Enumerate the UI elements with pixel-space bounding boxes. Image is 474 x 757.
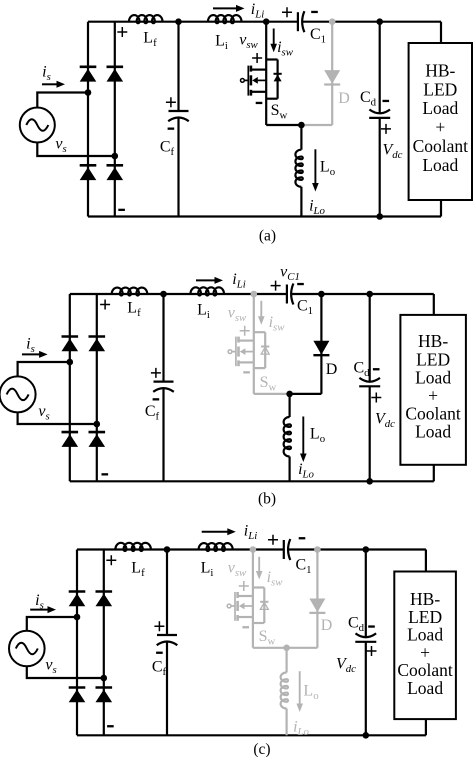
- current arrow is: [30, 609, 48, 611]
- label - (Cf): [156, 652, 163, 654]
- label - (Cd): [383, 100, 390, 102]
- wire (load bottom): [425, 719, 427, 735]
- current arrow isw: [273, 29, 275, 45]
- wire (switch branch drain): [253, 294, 255, 394]
- inductor Lo: [281, 673, 288, 709]
- junction (D tap): [314, 546, 321, 553]
- junction (switch/D/Lo node): [298, 122, 305, 129]
- svg-text:LED: LED: [423, 79, 457, 99]
- label + (vsw): [240, 326, 250, 336]
- label + (Cd): [381, 124, 391, 134]
- label + (C1): [271, 281, 281, 291]
- wire (bridge right leg): [103, 550, 105, 736]
- svg-text:D: D: [326, 361, 338, 378]
- junction (D tap): [329, 18, 336, 25]
- wire (D branch): [316, 550, 318, 648]
- current arrow iLo: [302, 417, 304, 455]
- figure (c): [9, 523, 456, 757]
- wire (Lo upper): [300, 125, 302, 150]
- capacitor C1: [297, 12, 299, 31]
- wire (bridge left leg): [69, 294, 71, 481]
- label - (C1): [297, 283, 304, 285]
- diode D: [324, 70, 340, 84]
- wire (bridge left leg): [76, 550, 78, 736]
- junction (D tap): [318, 291, 325, 298]
- load box (HB-LED Load + Coolant Load): [409, 43, 472, 200]
- svg-text:Coolant: Coolant: [405, 404, 461, 424]
- current arrow iLo: [299, 671, 301, 704]
- current arrow is: [22, 353, 40, 355]
- svg-text:(b): (b): [258, 491, 276, 508]
- inductor Lf: [129, 15, 162, 23]
- junction (switch/D/Lo node): [286, 391, 293, 398]
- capacitor Cf: [157, 634, 177, 636]
- diode (bridge, lower-left): [69, 686, 86, 689]
- figure (b): [0, 264, 466, 508]
- inductor Lo: [284, 417, 291, 457]
- junction (Cd bottom): [366, 478, 373, 485]
- wire (Lo lower): [286, 709, 288, 736]
- diode D: [313, 341, 329, 355]
- label - (Cf): [153, 398, 160, 400]
- current arrow iLo: [314, 149, 316, 184]
- svg-text:HB-: HB-: [425, 61, 455, 81]
- diode D: [309, 599, 325, 613]
- figure (a): [20, 1, 472, 244]
- capacitor Cf: [169, 110, 189, 112]
- label + (vsw): [252, 53, 262, 63]
- label + (C1): [282, 7, 292, 17]
- current arrow iLi: [202, 531, 229, 533]
- inductor Lf: [115, 543, 150, 551]
- svg-text:+: +: [428, 386, 438, 406]
- label - (C1): [299, 537, 306, 539]
- wire (D branch): [331, 22, 333, 125]
- junction (switch tap): [250, 546, 257, 553]
- wire (Lo upper): [286, 648, 288, 673]
- wire (source to bridge bottom): [27, 666, 104, 678]
- wire (Lo lower): [300, 187, 302, 217]
- wire (load bottom): [433, 465, 435, 482]
- label - (Cd): [373, 368, 380, 370]
- diode (bridge, upper-left): [62, 335, 79, 338]
- wire (D to node): [301, 124, 332, 126]
- junction (Cd top): [366, 291, 373, 298]
- junction (source -): [101, 675, 108, 682]
- junction (Cd top): [363, 546, 370, 553]
- wire (Cf branch upper): [166, 550, 168, 636]
- load box (HB-LED Load + Coolant Load): [400, 315, 466, 465]
- junction (Cd bottom): [363, 732, 370, 739]
- junction (source +): [67, 359, 74, 366]
- inductor Li: [199, 543, 233, 551]
- svg-text:Load: Load: [422, 155, 458, 175]
- junction (source +): [74, 614, 81, 621]
- wire (top rail left of C1): [70, 293, 287, 295]
- wire (top rail left of C1): [77, 548, 284, 550]
- inductor Li: [190, 287, 223, 295]
- inductor Li: [208, 15, 241, 23]
- wire (source to bridge bottom): [37, 143, 115, 157]
- label - (bridge output): [107, 725, 114, 727]
- wire (switch branch drain): [265, 22, 267, 125]
- capacitor Cf: [154, 381, 174, 383]
- wire (Cd upper): [379, 22, 381, 114]
- svg-text:LED: LED: [416, 349, 450, 369]
- junction (Cd bottom): [376, 213, 383, 220]
- svg-text:Load: Load: [407, 678, 443, 698]
- label + (bridge output): [106, 555, 116, 565]
- junction (switch/D/Lo node): [283, 645, 290, 652]
- capacitor Cd: [369, 110, 390, 114]
- wire (Cd upper): [369, 294, 371, 382]
- label - (C1): [311, 11, 318, 13]
- ac source vs: [9, 631, 45, 667]
- label + (bridge output): [100, 300, 110, 310]
- svg-text:Coolant: Coolant: [413, 136, 469, 156]
- svg-text:HB-: HB-: [418, 331, 448, 351]
- label + (Cf): [151, 368, 161, 378]
- svg-text:+: +: [435, 117, 445, 137]
- label + (Cf): [166, 97, 176, 107]
- wire (bridge right leg): [96, 294, 98, 481]
- svg-text:(a): (a): [259, 227, 276, 244]
- wire (load top): [425, 550, 427, 572]
- diode (bridge, upper-right): [89, 335, 106, 338]
- wire (top rail right of C1): [288, 548, 426, 550]
- wire (bridge left leg): [87, 22, 89, 217]
- transistor Sw: [241, 60, 282, 99]
- wire (top rail left of C1): [88, 21, 298, 23]
- capacitor C1: [283, 540, 285, 559]
- diode (bridge, lower-right): [89, 431, 106, 434]
- label + (Cf): [154, 621, 164, 631]
- label - (vsw): [256, 102, 263, 104]
- label - (bridge output): [118, 209, 125, 211]
- wire (load bottom): [440, 200, 442, 217]
- ac source vs: [20, 108, 55, 143]
- wire (Cf branch lower): [166, 642, 168, 736]
- junction (source -): [94, 421, 101, 428]
- junction (source -): [112, 153, 119, 160]
- junction (Cf tap): [164, 546, 171, 553]
- svg-text:D: D: [338, 90, 350, 107]
- wire (source to bridge top): [37, 93, 88, 108]
- capacitor C1: [286, 285, 288, 304]
- current arrow isw: [260, 301, 262, 318]
- current arrow iLi: [196, 279, 216, 281]
- current arrow is: [42, 83, 58, 85]
- wire (Lo lower): [289, 457, 291, 482]
- label + (C1): [268, 535, 278, 545]
- diode (bridge, lower-right): [96, 686, 113, 689]
- junction (Cf tap): [175, 18, 182, 25]
- svg-text:Load: Load: [422, 98, 458, 118]
- svg-text:Load: Load: [415, 422, 451, 442]
- diode (bridge, lower-left): [62, 431, 79, 434]
- inductor Lf: [112, 288, 148, 296]
- label - (Cf): [168, 128, 175, 130]
- diode (bridge, lower-left): [80, 164, 97, 167]
- svg-text:(c): (c): [253, 741, 270, 757]
- svg-text:D: D: [321, 617, 333, 634]
- wire (top rail right of C1): [302, 21, 441, 23]
- wire (Cf branch upper): [177, 22, 179, 111]
- capacitor Cd: [359, 378, 380, 382]
- wire (switch source to node): [254, 393, 290, 395]
- wire (Cd lower): [379, 118, 381, 217]
- junction (switch tap): [263, 18, 270, 25]
- wire (D to node): [290, 393, 322, 395]
- label + (vsw): [239, 581, 249, 591]
- transistor Sw: [228, 332, 269, 368]
- label + (Cd): [371, 393, 381, 403]
- diode (bridge, upper-right): [96, 590, 113, 593]
- label + (bridge output): [117, 27, 127, 37]
- svg-text:Load: Load: [415, 367, 451, 387]
- capacitor Cd: [356, 633, 377, 637]
- wire (source to bridge top): [27, 617, 77, 631]
- wire (source to bridge bottom): [18, 412, 97, 424]
- label - (vsw): [242, 626, 249, 628]
- wire (bottom rail): [77, 734, 426, 736]
- load box (HB-LED Load + Coolant Load): [394, 572, 456, 720]
- wire (D to node): [287, 647, 318, 649]
- wire (switch source to node): [253, 647, 287, 649]
- diode (bridge, lower-right): [107, 164, 124, 167]
- wire (Cd lower): [365, 642, 367, 736]
- wire (switch source to node): [266, 124, 301, 126]
- wire (bottom rail): [70, 480, 434, 482]
- junction (Cf tap): [160, 291, 167, 298]
- transistor Sw: [227, 588, 268, 624]
- wire (switch branch drain): [252, 550, 254, 648]
- wire (bridge right leg): [114, 22, 116, 217]
- label - (Cd): [368, 625, 375, 627]
- wire (load top): [440, 22, 442, 43]
- junction (source +): [85, 89, 92, 96]
- junction (Cd top): [376, 18, 383, 25]
- wire (Cd lower): [369, 386, 371, 481]
- wire (Lo upper): [289, 394, 291, 417]
- wire (D branch): [320, 294, 322, 394]
- ac source vs: [0, 376, 36, 412]
- inductor Lo: [295, 150, 302, 187]
- wire (bottom rail): [88, 215, 441, 217]
- wire (Cf branch lower): [177, 118, 179, 217]
- diode (bridge, upper-left): [80, 66, 97, 69]
- label - (vsw): [243, 371, 250, 373]
- current arrow iLi: [213, 7, 237, 9]
- wire (Cd upper): [365, 550, 367, 638]
- wire (top rail right of C1): [291, 293, 434, 295]
- label + (Cd): [367, 646, 377, 656]
- wire (source to bridge top): [18, 362, 70, 376]
- junction (switch tap): [251, 291, 258, 298]
- label - (bridge output): [102, 473, 109, 475]
- wire (load top): [433, 294, 435, 315]
- current arrow isw: [258, 557, 260, 572]
- wire (Cf branch upper): [162, 294, 164, 382]
- diode (bridge, upper-left): [69, 590, 86, 593]
- wire (Cf branch lower): [162, 388, 164, 481]
- diode (bridge, upper-right): [107, 66, 124, 69]
